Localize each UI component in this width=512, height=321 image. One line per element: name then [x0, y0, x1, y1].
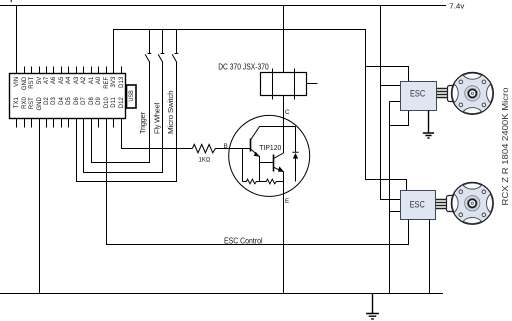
- wire branch to ESC1 top: [366, 67, 409, 82]
- svg-text:RCX Z R 1804 2400K Micro: RCX Z R 1804 2400K Micro: [501, 87, 510, 206]
- ground symbol on ground rail: [366, 294, 379, 319]
- connector J1 ESC1-motor wire bundle: [437, 89, 449, 98]
- motor M2 (top brushless) bolt holes: [459, 80, 486, 107]
- svg-text:Trigger: Trigger: [138, 112, 147, 134]
- motor M3 (bottom brushless) hub: [465, 196, 480, 211]
- resistor R2 internal (base-emitter Q1): [243, 149, 260, 184]
- motor M2 (top brushless) rim windows: [452, 73, 492, 113]
- wire ESC1 signal: [390, 101, 401, 103]
- svg-text:A2: A2: [81, 76, 87, 84]
- svg-text:GND: GND: [37, 97, 43, 111]
- svg-text:E: E: [285, 198, 289, 205]
- svg-text:ESC: ESC: [410, 88, 426, 98]
- svg-text:D7: D7: [81, 97, 87, 105]
- motor M3 (bottom brushless) rim windows: [452, 183, 492, 223]
- wire D6 to micro switch S3: [77, 119, 178, 182]
- svg-text:ESC Control: ESC Control: [224, 236, 263, 245]
- connector J2 ESC2-motor wire bundle: [436, 200, 448, 209]
- svg-text:5V: 5V: [37, 77, 43, 84]
- ESC 2 (bottom electronic speed controller): [401, 191, 436, 220]
- svg-text:A7: A7: [44, 76, 50, 84]
- svg-text:A5: A5: [59, 76, 65, 84]
- USB port on U1: [127, 85, 137, 108]
- switch S1 trigger switch: [145, 30, 151, 163]
- transistor Q2 (second NPN of darlington): [274, 153, 285, 172]
- svg-text:1KΩ: 1KΩ: [199, 156, 211, 163]
- wire 3V3 pin up to switch bus: [113, 29, 115, 74]
- svg-text:D11: D11: [111, 97, 117, 108]
- ground rail: [0, 293, 443, 295]
- svg-text:3V3: 3V3: [111, 76, 117, 87]
- svg-text:7.4v: 7.4v: [449, 1, 464, 10]
- wire emitter to ground rail: [283, 172, 285, 294]
- svg-text:RST: RST: [29, 97, 35, 109]
- svg-text:A3: A3: [74, 76, 80, 84]
- svg-text:REF: REF: [104, 76, 110, 88]
- resistor R3 internal (base-emitter Q2): [260, 179, 284, 184]
- motor M2 (top brushless) hub: [465, 86, 480, 101]
- motor M3 (bottom brushless) bolt holes: [459, 190, 486, 217]
- wire Q1 emitter to Q2 base: [260, 156, 274, 182]
- wire D8 to trigger switch S1: [92, 119, 151, 163]
- motor M1 brush caps: [273, 69, 295, 100]
- transistor Q1 (first NPN of darlington): [251, 127, 260, 157]
- motor M1 shaft: [307, 83, 318, 85]
- svg-text:D6: D6: [74, 97, 80, 105]
- svg-text:D12: D12: [119, 97, 125, 109]
- ESC control bus: [107, 219, 409, 245]
- svg-text:A1: A1: [89, 76, 95, 84]
- svg-text:B: B: [224, 143, 228, 150]
- wire VIN to 7.4v rail: [16, 6, 18, 74]
- svg-text:GND: GND: [22, 76, 28, 90]
- wire ESC2 bottom to ground rail: [429, 220, 431, 294]
- svg-text:D4: D4: [59, 97, 65, 105]
- svg-text:A0: A0: [96, 76, 102, 84]
- wire D7 to fly wheel switch S2: [84, 119, 164, 173]
- switch S2 fly wheel switch: [158, 30, 164, 173]
- motor M3 (bottom brushless) outer bell: [451, 182, 493, 224]
- svg-text:VIN: VIN: [14, 77, 20, 87]
- wire GND pin down to ground rail: [39, 119, 41, 294]
- wire D10 down: [106, 119, 108, 246]
- wire 7.4v rail down to ESC2: [381, 6, 401, 200]
- wire switch bus down to ESC2 top: [366, 30, 407, 191]
- svg-text:USB: USB: [128, 90, 135, 102]
- switch supply bus: [113, 29, 366, 31]
- ESC 1 (top electronic speed controller): [401, 82, 437, 111]
- svg-text:TX1: TX1: [14, 97, 20, 109]
- svg-text:ESC: ESC: [410, 199, 426, 209]
- svg-text:D10: D10: [104, 97, 110, 109]
- microcontroller U1 Arduino Nano body: [10, 74, 126, 119]
- svg-text:D5: D5: [66, 97, 72, 105]
- U1 top pin stubs: [17, 67, 122, 74]
- svg-text:D13: D13: [119, 76, 125, 88]
- svg-text:D2: D2: [44, 97, 50, 105]
- wire motor M1 to 7.4v rail: [283, 6, 285, 73]
- ground symbol for ESC1: [423, 111, 434, 139]
- svg-text:Micro Switch: Micro Switch: [166, 90, 175, 134]
- svg-text:DC 370 JSX-370: DC 370 JSX-370: [218, 63, 269, 72]
- wire collector to motor M1: [283, 96, 285, 154]
- connector J2 ESC2-motor plug: [447, 196, 456, 212]
- diode D1 internal flyback: [292, 127, 298, 182]
- svg-text:C: C: [285, 109, 290, 116]
- wire base into Q1: [229, 148, 251, 150]
- svg-text:Fly Wheel: Fly Wheel: [152, 102, 161, 134]
- power rail 7.4v: [0, 5, 446, 7]
- wire 7.4v branch to ESC1: [381, 85, 401, 87]
- svg-text:A6: A6: [51, 76, 57, 84]
- svg-text:TIP120: TIP120: [259, 143, 281, 152]
- cropped wire stub at top edge: [10, 0, 12, 2]
- motor M1 DC 370 body: [261, 73, 307, 96]
- wire D12 to resistor R1: [122, 119, 193, 149]
- svg-text:RX0: RX0: [22, 97, 28, 109]
- switch S3 micro switch: [172, 30, 178, 182]
- svg-text:D3: D3: [51, 97, 57, 105]
- collector bus inside TIP120: [260, 126, 296, 128]
- svg-text:D8: D8: [89, 97, 95, 105]
- ground wire from ESC1 to ground rail: [389, 102, 391, 294]
- wire ESC2 signal: [390, 211, 401, 213]
- U1 bottom pin stubs: [17, 119, 122, 128]
- resistor R1 1KΩ: [192, 144, 229, 152]
- wire ESC1 bottom to ground wire: [390, 111, 409, 126]
- motor M2 (top brushless) outer bell: [451, 72, 493, 114]
- transistor U2 TIP120 outline circle: [229, 115, 310, 196]
- svg-text:RST: RST: [29, 76, 35, 88]
- svg-text:A4: A4: [66, 76, 72, 84]
- connector J1 ESC1-motor plug: [448, 86, 457, 102]
- svg-text:D9: D9: [96, 97, 102, 105]
